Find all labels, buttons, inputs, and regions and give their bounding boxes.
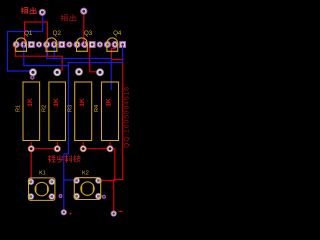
svg-text:1K: 1K bbox=[105, 98, 112, 107]
svg-text:K2: K2 bbox=[82, 170, 89, 176]
svg-text:K1: K1 bbox=[39, 170, 46, 176]
svg-text:1K: 1K bbox=[27, 98, 34, 107]
svg-text:Q3: Q3 bbox=[84, 30, 93, 37]
svg-text:+: + bbox=[68, 211, 72, 218]
svg-text:1K: 1K bbox=[53, 98, 60, 107]
svg-text:R2: R2 bbox=[41, 105, 47, 112]
svg-text:Q1: Q1 bbox=[24, 30, 33, 37]
svg-text:Q4: Q4 bbox=[113, 30, 122, 37]
svg-text:R3: R3 bbox=[67, 105, 73, 112]
svg-text:Q2: Q2 bbox=[53, 30, 62, 37]
svg-text:QQ:1605904518: QQ:1605904518 bbox=[124, 86, 131, 148]
svg-text:1K: 1K bbox=[79, 98, 86, 107]
svg-text:R1: R1 bbox=[16, 105, 22, 112]
svg-text:R4: R4 bbox=[94, 105, 100, 112]
